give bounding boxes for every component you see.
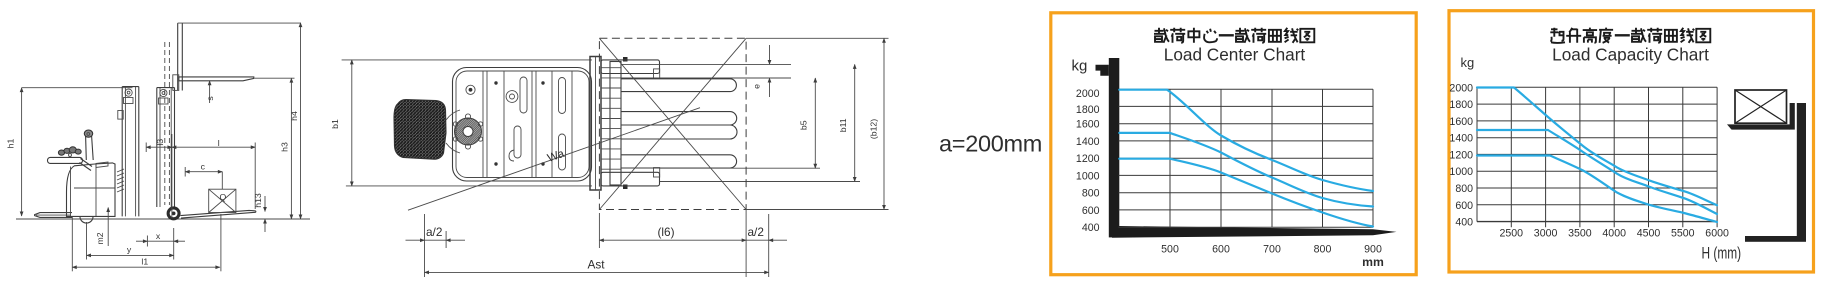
svg-text:4000: 4000 xyxy=(1602,227,1626,239)
Ast dimension xyxy=(425,271,769,273)
svg-text:kg: kg xyxy=(1461,55,1475,70)
load outline dashed rect xyxy=(599,38,746,209)
curve 2000 xyxy=(1119,90,1373,191)
fork capsule 2 xyxy=(621,112,737,125)
curve 1200 xyxy=(1477,156,1717,223)
svg-text:h13: h13 xyxy=(253,193,263,208)
svg-text:y: y xyxy=(127,244,132,254)
console on body xyxy=(96,162,108,168)
grid horizontals xyxy=(1119,89,1374,227)
m2 dimension xyxy=(107,208,109,247)
l1 dimension xyxy=(72,266,220,268)
svg-text:h3: h3 xyxy=(280,142,290,152)
Wa turning radius line xyxy=(408,108,700,211)
grid horizontals xyxy=(1477,87,1717,205)
grid verticals xyxy=(1477,87,1717,221)
svg-text:H (mm): H (mm) xyxy=(1702,245,1742,263)
l3 dimension xyxy=(146,146,172,148)
svg-text:e: e xyxy=(752,84,762,89)
svg-text:2500: 2500 xyxy=(1500,227,1524,239)
orange border xyxy=(1449,11,1814,272)
(l6) dimension xyxy=(599,239,746,241)
thick y-axis bar xyxy=(1109,58,1120,237)
raised fork blade xyxy=(179,77,254,81)
svg-text:Load Center Chart: Load Center Chart xyxy=(1164,45,1306,65)
mast dashed centerlines xyxy=(164,42,166,205)
straddle leg top xyxy=(601,60,660,74)
carriage plates xyxy=(590,57,601,191)
y labels xyxy=(1076,88,1100,234)
svg-text:m2: m2 xyxy=(95,232,105,244)
svg-text:400: 400 xyxy=(1455,217,1473,229)
outer mast tower xyxy=(121,87,123,217)
lower extension lines xyxy=(660,167,820,169)
svg-text:(b12): (b12) xyxy=(869,119,879,139)
b12 dimension xyxy=(883,38,885,209)
body capsule slots xyxy=(514,126,521,158)
drive wheel bulge xyxy=(80,217,93,224)
svg-text:b5: b5 xyxy=(799,120,809,130)
fork-top extension line xyxy=(255,77,295,79)
svg-text:1000: 1000 xyxy=(1449,166,1473,178)
rear platform bar xyxy=(35,213,72,218)
svg-text:6000: 6000 xyxy=(1705,227,1729,239)
raised mast channel xyxy=(177,23,179,90)
tiller grip bar xyxy=(48,157,83,163)
lowered fork blade xyxy=(181,210,256,218)
fork carriage raised xyxy=(173,75,179,91)
svg-text:1400: 1400 xyxy=(1449,133,1473,145)
c dimension xyxy=(185,171,222,173)
svg-text:1400: 1400 xyxy=(1076,136,1100,148)
svg-text:700: 700 xyxy=(1263,244,1281,256)
tiller arm xyxy=(80,159,93,171)
b1 reference line bottom xyxy=(346,185,592,187)
chinese title 1 xyxy=(1154,28,1314,43)
svg-text:kg: kg xyxy=(1072,58,1088,75)
svg-text:800: 800 xyxy=(1455,183,1473,195)
b1 dimension xyxy=(351,60,353,186)
h13 dimension xyxy=(264,196,266,212)
svg-text:a=200mm: a=200mm xyxy=(939,131,1042,157)
h4 dimension xyxy=(300,23,302,219)
svg-text:l: l xyxy=(218,138,220,148)
svg-text:800: 800 xyxy=(1314,244,1332,256)
load box Q xyxy=(209,189,236,212)
svg-text:600: 600 xyxy=(1455,200,1473,212)
svg-text:l3: l3 xyxy=(155,139,165,146)
truck body outline xyxy=(67,163,116,217)
svg-text:h1: h1 xyxy=(6,139,16,149)
svg-text:Load Capacity Chart: Load Capacity Chart xyxy=(1552,45,1709,65)
svg-text:Q: Q xyxy=(220,192,227,202)
svg-text:a/2: a/2 xyxy=(748,225,764,239)
load wheel xyxy=(167,206,181,220)
s dimension xyxy=(209,81,211,103)
svg-text:3500: 3500 xyxy=(1568,227,1592,239)
forklift icon: load box xyxy=(1735,90,1787,123)
svg-text:Ast: Ast xyxy=(587,258,605,272)
inner mast tower xyxy=(156,88,158,207)
svg-text:mm: mm xyxy=(1362,255,1384,269)
curve 1500 xyxy=(1119,133,1373,207)
svg-text:800: 800 xyxy=(1082,188,1100,200)
body outline outer xyxy=(453,68,592,182)
svg-text:c: c xyxy=(201,161,206,171)
x ticks xyxy=(1511,222,1717,228)
b5 dimension xyxy=(814,78,816,168)
axis hook xyxy=(1096,65,1109,76)
inner mast pulley xyxy=(160,89,167,96)
tiller head knobs xyxy=(58,150,64,155)
svg-text:s: s xyxy=(205,96,215,101)
x dimension xyxy=(136,240,147,242)
svg-text:5500: 5500 xyxy=(1671,227,1695,239)
svg-text:2000: 2000 xyxy=(1449,82,1473,94)
outer mast pulley xyxy=(125,89,132,96)
body ring xyxy=(506,91,518,103)
svg-text:900: 900 xyxy=(1364,244,1382,256)
a/2 left dimension xyxy=(406,239,425,241)
svg-text:1800: 1800 xyxy=(1449,99,1473,111)
svg-text:(l6): (l6) xyxy=(658,225,675,239)
svg-text:600: 600 xyxy=(1212,244,1230,256)
curve 2000 xyxy=(1477,88,1717,206)
body panel lines xyxy=(482,71,484,178)
forklift icon: mast xyxy=(1797,103,1806,241)
y labels xyxy=(1449,82,1473,228)
svg-text:b11: b11 xyxy=(838,118,848,132)
x labels xyxy=(1161,244,1382,256)
h1 dimension line xyxy=(21,88,23,216)
ground line xyxy=(16,218,310,220)
x labels xyxy=(1500,227,1729,239)
orange border xyxy=(1051,13,1416,275)
tiller arm upright xyxy=(86,136,94,160)
fork capsule 3 xyxy=(621,125,737,139)
svg-text:1200: 1200 xyxy=(1449,149,1473,161)
l dimension xyxy=(172,146,255,148)
svg-text:2000: 2000 xyxy=(1076,88,1100,100)
load cross diagonals xyxy=(599,38,746,209)
vent grille xyxy=(117,169,124,192)
svg-text:1000: 1000 xyxy=(1076,170,1100,182)
fork edge lines (e extension) xyxy=(621,63,791,65)
svg-text:500: 500 xyxy=(1161,244,1179,256)
curve 1500 xyxy=(1477,130,1717,214)
svg-text:x: x xyxy=(156,231,161,241)
fork capsule 4 xyxy=(621,155,737,168)
svg-text:h4: h4 xyxy=(289,111,299,121)
svg-text:3000: 3000 xyxy=(1534,227,1558,239)
mast-top reference line for h1 xyxy=(22,87,133,89)
b1 reference line top xyxy=(342,59,592,61)
max lift reference line xyxy=(178,22,301,24)
fork capsule 1 xyxy=(621,79,736,92)
svg-text:1800: 1800 xyxy=(1076,104,1100,116)
chinese title 2 xyxy=(1550,28,1710,43)
body small circle xyxy=(466,85,475,94)
y dimension xyxy=(87,254,174,256)
svg-text:4500: 4500 xyxy=(1637,227,1661,239)
h3 dimension xyxy=(290,78,292,219)
svg-text:b1: b1 xyxy=(330,119,340,129)
curve 1200 xyxy=(1119,159,1373,227)
svg-text:400: 400 xyxy=(1082,222,1100,234)
a/2 right dimension xyxy=(746,239,769,241)
tiller head (hatched) xyxy=(394,100,446,160)
forklift icon: carriage xyxy=(1790,103,1795,130)
svg-text:1600: 1600 xyxy=(1076,119,1100,131)
svg-text:1600: 1600 xyxy=(1449,116,1473,128)
svg-text:l1: l1 xyxy=(141,256,148,266)
b11 dimension xyxy=(854,64,856,181)
e dimension xyxy=(769,45,771,64)
svg-text:600: 600 xyxy=(1082,205,1100,217)
forklift icon: floor xyxy=(1745,236,1806,242)
svg-text:1200: 1200 xyxy=(1076,153,1100,165)
steering joint hatched disc xyxy=(455,118,482,145)
thick x-axis wedge xyxy=(1112,226,1397,238)
body outline inner xyxy=(456,71,589,178)
svg-text:a/2: a/2 xyxy=(426,225,442,239)
grid verticals xyxy=(1170,89,1373,227)
straddle leg bottom xyxy=(601,172,660,186)
forklift icon: fork xyxy=(1727,124,1790,129)
